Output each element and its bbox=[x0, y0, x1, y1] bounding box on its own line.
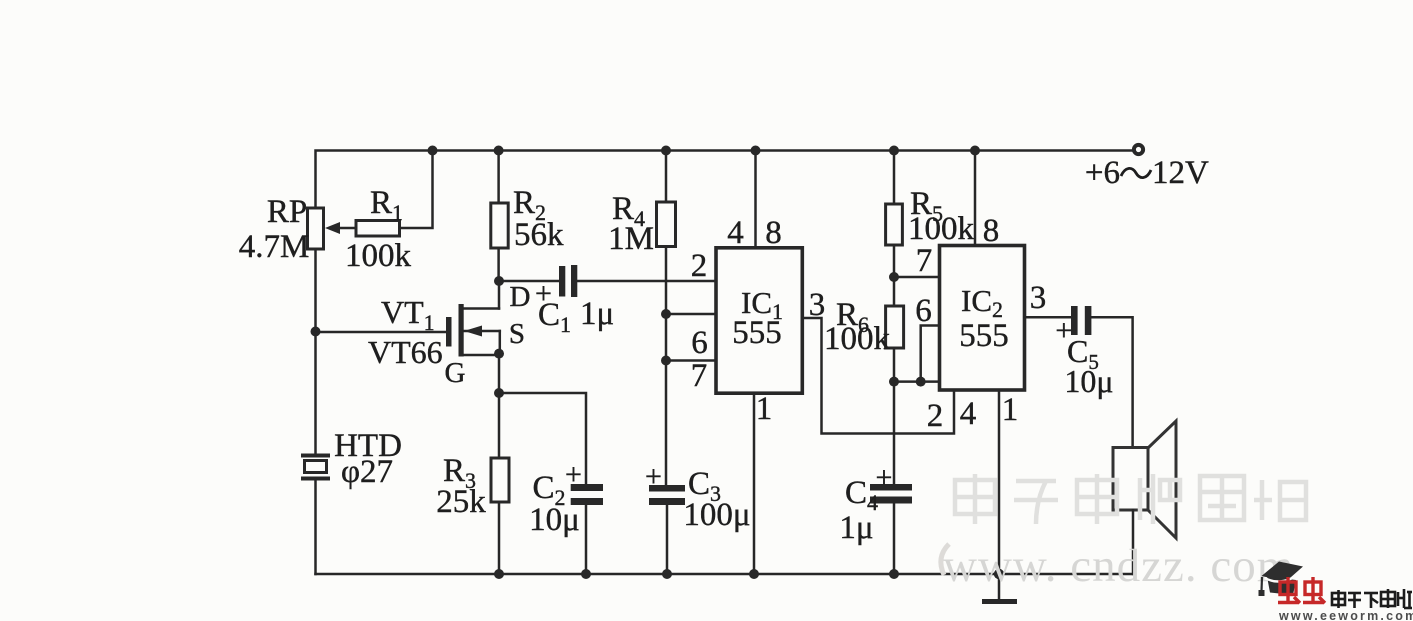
node gate junction on RP line bbox=[311, 327, 321, 337]
svg-text:1: 1 bbox=[1002, 392, 1019, 428]
node C4 bottom rail bbox=[889, 569, 899, 579]
wire IC2 pin8 to rail bbox=[974, 151, 977, 246]
resistor R1 body bbox=[356, 221, 400, 237]
wire R4 leads and column to C3 bbox=[665, 151, 668, 203]
wire source down bbox=[498, 354, 501, 393]
svg-text:8: 8 bbox=[983, 213, 1000, 249]
piezo transducer HTD bbox=[301, 456, 330, 479]
svg-text:+: + bbox=[645, 460, 662, 493]
node pin6 junction bbox=[661, 309, 671, 319]
svg-text:6: 6 bbox=[691, 325, 708, 361]
resistor R4 body bbox=[657, 202, 676, 247]
node C3 bottom rail bbox=[662, 569, 672, 579]
svg-text:R1: R1 bbox=[370, 185, 403, 225]
svg-text:VT66: VT66 bbox=[368, 334, 443, 370]
wire R6 bottom bbox=[893, 348, 896, 382]
svg-text:φ27: φ27 bbox=[341, 454, 393, 490]
transistor VT1 bbox=[446, 281, 500, 357]
node IC2 pin8 rail bbox=[970, 146, 980, 156]
node R2 top rail bbox=[494, 146, 504, 156]
wire IC1 pins 4 8 to rail bbox=[754, 151, 757, 248]
node R3 top junction bbox=[494, 388, 504, 398]
wire R5 leads bbox=[893, 151, 896, 205]
wire IC1 pin3 to IC2 reset bbox=[802, 318, 954, 434]
wire IC2 pin3 to C5 bbox=[1025, 316, 1072, 319]
svg-text:56k: 56k bbox=[514, 217, 564, 253]
wire R3 leads bbox=[498, 393, 501, 458]
wire to IC2 pin7 bbox=[894, 276, 940, 279]
wire C5 to speaker bbox=[1091, 317, 1132, 447]
wire C4 column bbox=[893, 382, 896, 484]
svg-text:RP: RP bbox=[267, 194, 307, 230]
node pin6 link bbox=[916, 377, 926, 387]
svg-text:1: 1 bbox=[756, 391, 773, 427]
capacitor C2 bbox=[571, 484, 603, 574]
wire IC1 pin1 to ground rail bbox=[753, 393, 756, 574]
resistor R5 body bbox=[886, 204, 903, 245]
resistor R3 body bbox=[491, 458, 509, 502]
svg-text:8: 8 bbox=[765, 215, 782, 251]
svg-text:4.7M: 4.7M bbox=[239, 229, 310, 265]
svg-text:25k: 25k bbox=[436, 484, 486, 520]
svg-text:S: S bbox=[509, 318, 525, 350]
svg-text:555: 555 bbox=[959, 318, 1009, 354]
node R5 top rail bbox=[889, 146, 899, 156]
svg-text:100k: 100k bbox=[345, 238, 412, 274]
wire bottom rail bbox=[316, 573, 1134, 576]
wire R2 leads bbox=[497, 151, 500, 204]
svg-text:100μ: 100μ bbox=[683, 497, 750, 533]
svg-text:www.eeworm.com: www.eeworm.com bbox=[1278, 609, 1413, 621]
svg-text:+6: +6 bbox=[1085, 155, 1120, 191]
node IC2 pin1 bottom rail bbox=[994, 569, 1004, 579]
svg-text:4: 4 bbox=[727, 215, 744, 251]
svg-text:VT1: VT1 bbox=[381, 294, 435, 335]
node R6 bottom bbox=[889, 377, 899, 387]
wire IC2 pin1 down bbox=[998, 390, 1001, 574]
ground bbox=[982, 574, 1017, 602]
wire branch to C2 bbox=[499, 393, 586, 487]
wire R1 to top rail bbox=[400, 151, 433, 229]
power terminal +6~12V bbox=[1134, 145, 1143, 154]
svg-text:555: 555 bbox=[732, 315, 782, 351]
node R2 bottom / drain / C1 bbox=[494, 276, 504, 286]
resistor R2 body bbox=[491, 203, 508, 248]
svg-text:12V: 12V bbox=[1152, 155, 1209, 191]
svg-text:1μ: 1μ bbox=[839, 510, 873, 546]
resistor R6 body bbox=[886, 306, 904, 348]
wire speaker to bottom rail bbox=[1132, 510, 1135, 574]
svg-text:10μ: 10μ bbox=[1064, 363, 1113, 399]
wire to IC1 pin7 bbox=[666, 359, 716, 362]
logo graduation cap bbox=[1259, 562, 1304, 597]
capacitor C3 bbox=[649, 485, 685, 574]
op IC2 555 box bbox=[940, 246, 1025, 391]
svg-text:D: D bbox=[510, 281, 531, 313]
svg-text:www. cndzz. com: www. cndzz. com bbox=[943, 540, 1294, 592]
logo site name glyph blocks bbox=[1332, 589, 1412, 608]
node pin7 junction bbox=[661, 356, 671, 366]
svg-text:100k: 100k bbox=[824, 321, 891, 357]
svg-text:7: 7 bbox=[691, 358, 708, 394]
scratch mark bbox=[941, 544, 949, 575]
svg-text:1μ: 1μ bbox=[580, 296, 614, 332]
svg-text:C1: C1 bbox=[538, 297, 571, 337]
wire top supply rail bbox=[316, 151, 1133, 575]
logo chongchong red glyphs bbox=[1278, 577, 1325, 603]
svg-text:G: G bbox=[445, 357, 466, 389]
capacitor C1 bbox=[559, 265, 577, 297]
svg-text:100k: 100k bbox=[908, 211, 975, 247]
node IC1 pin1 bottom rail bbox=[749, 569, 759, 579]
node R1 top rail bbox=[428, 146, 438, 156]
wire junction row to IC2 bbox=[894, 380, 940, 383]
svg-text:4: 4 bbox=[960, 396, 977, 432]
label +6~12V bbox=[1085, 155, 1209, 191]
node source junction bbox=[494, 349, 504, 359]
svg-text:C4: C4 bbox=[845, 475, 878, 515]
potentiometer RP body bbox=[308, 208, 324, 249]
wire node to C1 bbox=[499, 280, 559, 283]
svg-text:1M: 1M bbox=[608, 221, 654, 257]
RP wiper arrow bbox=[325, 222, 356, 234]
node C2 bottom rail bbox=[581, 569, 591, 579]
node R5 bottom pin7 bbox=[889, 272, 899, 282]
wire IC2 pin6 link bbox=[921, 326, 940, 382]
svg-text:2: 2 bbox=[927, 398, 944, 434]
svg-text:10μ: 10μ bbox=[529, 502, 580, 538]
wire to IC1 pin6 bbox=[666, 313, 716, 316]
svg-text:7: 7 bbox=[916, 243, 933, 279]
op IC1 555 box bbox=[716, 248, 802, 393]
node IC1 supply rail bbox=[751, 146, 761, 156]
wire gate bbox=[316, 331, 447, 334]
node R4 top rail bbox=[661, 146, 671, 156]
svg-text:+: + bbox=[565, 458, 582, 491]
svg-text:2: 2 bbox=[691, 248, 708, 284]
svg-text:6: 6 bbox=[915, 293, 932, 329]
svg-text:+: + bbox=[876, 461, 893, 494]
svg-text:3: 3 bbox=[1030, 280, 1047, 316]
wire C1 to IC1 pin2 bbox=[577, 280, 716, 283]
node R3 bottom rail bbox=[494, 569, 504, 579]
watermark big hanzi bbox=[955, 474, 1306, 524]
capacitor C4 bbox=[870, 484, 912, 574]
capacitor C5 bbox=[1071, 306, 1091, 335]
speaker BL bbox=[1113, 421, 1176, 538]
